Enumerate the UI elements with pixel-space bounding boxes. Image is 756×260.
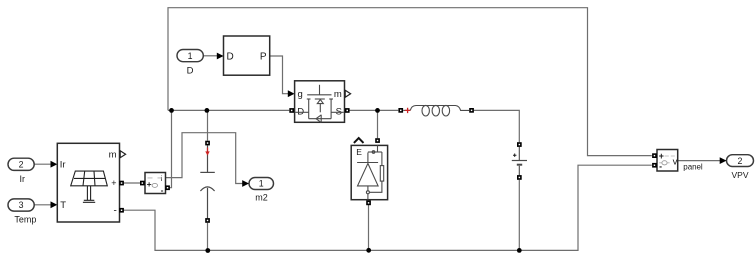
battery plus sign: [513, 154, 516, 157]
arrow into PV Ir input: [51, 161, 58, 168]
svg-text:1: 1: [259, 179, 264, 189]
wire diode bottom to rail: [368, 205, 370, 250]
junction node A (rail / current meas): [169, 108, 174, 113]
wire inductor to battery branch: [474, 110, 519, 142]
L1 left port square: [398, 108, 403, 113]
battery / DC source B1: [512, 147, 527, 175]
diode block D1: [351, 145, 387, 199]
svg-text:+: +: [111, 178, 116, 188]
svg-text:2: 2: [19, 160, 24, 170]
wire battery bottom to rail: [518, 180, 520, 251]
wire from node A down to current measurement minus: [170, 110, 172, 187]
svg-text:Temp: Temp: [14, 214, 36, 224]
L1 red plus: [405, 108, 410, 113]
battery bottom port square: [517, 175, 522, 180]
source port 3 (Temp) oval: [8, 199, 34, 211]
svg-text:-: -: [113, 205, 116, 216]
MOSFET m output chevron: [345, 90, 350, 97]
wire MOSFET S to inductor: [349, 109, 398, 111]
wire capacitor C1 bottom connection: [207, 223, 209, 251]
svg-text:+: +: [659, 151, 664, 161]
MOSFET D port square: [289, 108, 294, 113]
svg-text:m: m: [109, 150, 117, 161]
diode internals: [357, 145, 384, 199]
wire current measurement i output to m2 port: [166, 133, 243, 184]
PV array block U1: [57, 143, 119, 222]
wire capacitor C1 top connection: [207, 110, 209, 140]
svg-text:+: +: [147, 179, 152, 189]
wire Temp port to PV block: [34, 204, 51, 206]
svg-text:1: 1: [188, 51, 193, 61]
wire PWM P output to MOSFET gate: [270, 56, 288, 94]
battery top port square: [517, 142, 522, 147]
wire positive rail (current meas node to MOSFET D): [168, 109, 289, 111]
current meas - port square: [165, 185, 170, 190]
current meas + port square: [140, 181, 145, 186]
svg-text:2: 2: [738, 156, 743, 166]
L1 right port square: [469, 108, 474, 113]
svg-text:Ir: Ir: [60, 160, 66, 171]
svg-text:panel: panel: [683, 162, 703, 171]
MOSFET S port square: [345, 108, 350, 113]
wire PV minus to bottom rail: [120, 165, 652, 250]
output port 2 (VPV) oval: [727, 155, 754, 167]
wire voltage measurement output to VPV port: [678, 160, 720, 162]
svg-text:g: g: [298, 89, 303, 100]
svg-text:m: m: [334, 89, 342, 100]
arrow into m2 port: [242, 180, 249, 187]
wire diode branch drop: [377, 110, 379, 138]
wire top feedback loop (Vpv+ sense to voltage measurement +): [168, 8, 652, 156]
C1 bottom port square: [205, 218, 210, 223]
svg-text:m2: m2: [255, 193, 268, 203]
junction bottom rail / diode: [366, 248, 371, 253]
junction bottom rail / battery: [517, 248, 522, 253]
diode top port square: [375, 138, 380, 143]
MOSFET icon internals: [295, 85, 343, 123]
C1 red current direction arrow: [205, 148, 209, 156]
wire Ir port to PV block: [34, 163, 51, 165]
PV m output chevron: [120, 151, 125, 158]
arrow into PWM block: [217, 53, 224, 60]
source port 1 (D) oval: [177, 50, 203, 62]
svg-text:D: D: [227, 52, 234, 63]
arrow into PV T input: [51, 201, 58, 208]
voltage measurement block (panel): [657, 150, 678, 172]
solar panel icon: [71, 171, 108, 202]
PV - port square: [119, 208, 124, 213]
PWM generator block: [224, 36, 270, 75]
MOSFET block Q1: [295, 81, 345, 123]
source port 2 (Ir) oval: [8, 158, 34, 170]
svg-text:3: 3: [19, 200, 24, 210]
junction node B (rail / C1 top): [205, 108, 210, 113]
wire PV plus to current measurement: [120, 182, 145, 184]
svg-text:v: v: [673, 157, 678, 168]
output port 1 (m2) oval: [249, 178, 274, 190]
PV + port square: [119, 181, 124, 186]
capacitor C1 branch: [200, 145, 215, 218]
vmeas + port square: [652, 153, 657, 158]
diode bottom port square: [366, 201, 371, 206]
svg-text:D: D: [187, 65, 194, 76]
svg-text:E: E: [356, 147, 362, 157]
arrow into VPV port: [720, 157, 727, 164]
wire D source port to PWM block: [203, 55, 217, 57]
junction bottom rail / C1: [205, 248, 210, 253]
svg-text:-: -: [161, 185, 164, 195]
C1 top port square: [205, 141, 210, 146]
svg-text:P: P: [260, 52, 267, 63]
junction node C (S-L / diode): [375, 108, 380, 113]
arrow into MOSFET gate: [288, 90, 295, 97]
svg-text:VPV: VPV: [731, 170, 748, 180]
svg-text:Ir: Ir: [20, 174, 26, 184]
diode m output chevron (up): [354, 138, 364, 143]
inductor L1: [403, 105, 469, 116]
svg-text:T: T: [60, 200, 66, 211]
vmeas - port square: [652, 163, 657, 168]
current measurement block: [145, 173, 166, 195]
